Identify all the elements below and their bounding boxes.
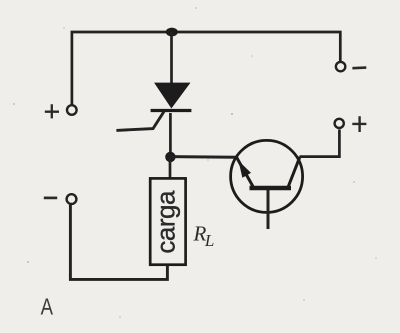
node junction dot mid <box>165 152 175 162</box>
transistor emitter lead with arrow <box>237 157 253 186</box>
node junction dot top <box>166 28 178 37</box>
label + (left) <box>45 104 59 118</box>
wire load box bottom return to - terminal <box>70 205 167 280</box>
wire collector to + terminal <box>300 130 340 157</box>
wire node to transistor emitter <box>170 155 236 159</box>
transistor base lead <box>267 190 270 229</box>
transistor collector lead <box>288 157 300 187</box>
wire top rail: from + terminal up, across, down to - terminal <box>72 32 340 105</box>
terminal circle + (left) <box>67 105 77 115</box>
terminal circle - (top right) <box>336 62 345 71</box>
wire cathode to node <box>169 113 172 157</box>
terminal circle + (right) <box>335 119 344 128</box>
gate lead <box>116 112 164 131</box>
label - (left) <box>44 197 57 200</box>
thyristor cathode bar <box>151 109 192 112</box>
svg-text:carga: carga <box>151 190 181 254</box>
thyristor SCR anode triangle <box>155 83 190 108</box>
svg-text:L: L <box>204 231 214 250</box>
terminal circle - (left) <box>67 194 77 204</box>
wire node to load box <box>169 157 172 178</box>
transistor base bar <box>250 186 292 190</box>
transistor Q1 circle <box>231 140 303 212</box>
load box (carga) <box>150 178 185 264</box>
label - (top right) <box>352 66 366 69</box>
svg-text:A: A <box>41 295 53 320</box>
label + (right) <box>352 116 366 132</box>
wire anode lead <box>170 32 173 84</box>
